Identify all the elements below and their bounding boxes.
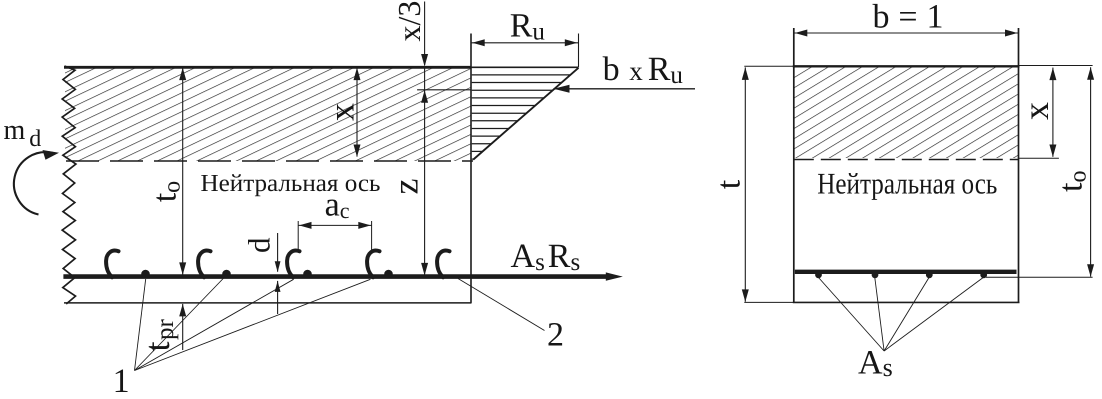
- label Neutral axis (left figure): [201, 170, 381, 197]
- x down arrowhead: [354, 145, 361, 158]
- t_o up arrowhead: [179, 68, 186, 81]
- label m_d: [4, 115, 42, 152]
- rebar dot 2 (right figure): [872, 272, 879, 279]
- b=1 right arrowhead: [1005, 30, 1018, 37]
- Ru left arrowhead: [472, 39, 485, 46]
- a_c dimension line: [298, 224, 371, 226]
- a_c right arrowhead: [358, 222, 371, 229]
- rebar hook 5: [437, 251, 449, 278]
- label x (rotated, left figure): [322, 103, 362, 121]
- t bottom extension line: [744, 301, 794, 303]
- leader lines from label 1: [135, 276, 371, 371]
- rebar dot 2 (left figure): [222, 270, 231, 279]
- rebar dot 1 (left figure): [141, 270, 150, 279]
- label z (rotated): [386, 179, 426, 195]
- t up arrowhead: [742, 67, 749, 80]
- t top extension line: [744, 65, 794, 67]
- hatched compression zone (left beam): [65, 66, 471, 161]
- label As Rs: [511, 238, 581, 276]
- Ru dimension line: [471, 42, 579, 44]
- svg-text:d: d: [242, 237, 277, 253]
- rebar dot 4 (right figure): [980, 272, 987, 279]
- t_o dimension line (left figure): [182, 68, 184, 275]
- Ru right arrowhead: [565, 39, 578, 46]
- beam top edge (left figure): [64, 66, 472, 69]
- x/3 up arrowhead at resultant level: [421, 90, 428, 103]
- label t_o (rotated, left figure): [147, 181, 186, 202]
- Ru dimension extension line (right): [578, 34, 580, 68]
- d down arrowhead: [275, 261, 281, 272]
- beam bottom edge (left figure): [64, 302, 472, 304]
- svg-text:x: x: [1016, 102, 1056, 120]
- leader lines from label As: [819, 278, 984, 352]
- resultant level tick line: [417, 89, 471, 91]
- As Rs tension force line (thick): [63, 274, 607, 279]
- t down arrowhead: [742, 289, 749, 302]
- t_o down arrowhead (right figure): [1087, 264, 1094, 277]
- neutral axis dashed line (left figure): [66, 160, 473, 162]
- stress triangle top edge: [471, 66, 579, 68]
- label d (rotated): [242, 237, 277, 253]
- rebar dot 3 (left figure): [303, 270, 312, 279]
- x bottom extension line (right figure): [1019, 157, 1059, 159]
- t_o up arrowhead (right figure): [1087, 67, 1094, 80]
- label 2: [547, 316, 564, 353]
- b x Ru arrowhead: [554, 85, 570, 93]
- t_o down arrowhead: [179, 262, 186, 275]
- stress triangle diagonal (hypotenuse): [473, 68, 578, 160]
- z dimension line: [424, 67, 426, 275]
- t_pr up arrowhead at bottom edge: [179, 304, 186, 317]
- right figure rectangle left edge: [793, 28, 795, 302]
- rebar hook 1: [106, 251, 118, 278]
- x up arrowhead: [354, 68, 361, 81]
- t_o top extension line (right figure): [1019, 65, 1093, 67]
- stress diagram horizontal hatch lines: [472, 75, 570, 159]
- t_pr dimension line below beam: [182, 304, 184, 350]
- a_c extension line right: [371, 221, 373, 251]
- leader line from label 2: [458, 279, 545, 331]
- beam right edge (left figure, extended up for Ru dimension): [470, 34, 472, 303]
- label b x Ru: [603, 51, 684, 89]
- label x/3 (rotated): [391, 1, 427, 42]
- a_c extension line left: [297, 221, 299, 251]
- x down arrowhead (right figure): [1049, 145, 1056, 158]
- rebar hook 2: [198, 251, 210, 278]
- z down arrowhead at As line: [421, 263, 428, 276]
- b=1 dimension line: [794, 32, 1019, 34]
- x/3 down arrowhead at top edge: [421, 54, 428, 67]
- rebar hook 4: [367, 251, 379, 278]
- d up arrowhead: [275, 281, 281, 292]
- x/3 dimension line (above top edge): [424, 2, 426, 66]
- right figure rectangle top edge: [793, 65, 1020, 67]
- d dimension upper line: [277, 233, 279, 272]
- svg-text:x: x: [322, 103, 362, 121]
- t dimension line: [744, 67, 746, 301]
- As Rs arrowhead: [606, 272, 623, 280]
- label As (right figure): [858, 345, 893, 383]
- b=1 left arrowhead: [795, 30, 808, 37]
- neutral axis dashed line (right figure): [794, 159, 1019, 161]
- a_c left arrowhead: [299, 222, 312, 229]
- jagged break line (left edge of beam): [62, 66, 76, 304]
- svg-text:Нейтральная ось: Нейтральная ось: [817, 168, 997, 201]
- svg-text:t: t: [711, 179, 748, 189]
- label Ru: [510, 7, 546, 45]
- svg-text:2: 2: [547, 316, 564, 353]
- right figure rectangle right edge: [1018, 28, 1020, 302]
- svg-text:x/3: x/3: [391, 1, 427, 42]
- x dimension line (right figure): [1052, 68, 1054, 157]
- reinforcement line As (right figure, thick): [795, 270, 1017, 274]
- rebar dot 1 (right figure): [815, 272, 822, 279]
- label 1: [113, 363, 130, 399]
- x up arrowhead (right figure): [1049, 68, 1056, 81]
- t_o dimension line (right figure): [1090, 67, 1092, 276]
- label Neutral axis (right figure): [817, 168, 997, 201]
- svg-text:b = 1: b = 1: [873, 0, 944, 36]
- label t (rotated): [711, 179, 748, 189]
- label b = 1: [873, 0, 944, 36]
- rebar hook 3: [287, 251, 299, 278]
- moment arc arrow m_d: [14, 150, 59, 215]
- rebar dot 3 (right figure): [926, 272, 933, 279]
- d dimension lower line: [277, 281, 279, 314]
- label a_c: [325, 187, 350, 224]
- label t_o (rotated, right figure): [1053, 171, 1092, 192]
- t_o level extension line at As: [986, 276, 1093, 278]
- svg-text:1: 1: [113, 363, 130, 394]
- svg-text:Нейтральная ось: Нейтральная ось: [201, 170, 381, 197]
- hatched compression zone (right figure): [794, 66, 1019, 158]
- right figure rectangle bottom edge: [793, 301, 1020, 303]
- x dimension line (left figure): [356, 68, 358, 157]
- rebar dot 4 (left figure): [384, 270, 393, 279]
- b x Ru force line: [554, 88, 696, 90]
- label t_pr (rotated): [137, 318, 179, 351]
- svg-text:z: z: [386, 179, 426, 195]
- label x (rotated, right figure): [1016, 102, 1056, 120]
